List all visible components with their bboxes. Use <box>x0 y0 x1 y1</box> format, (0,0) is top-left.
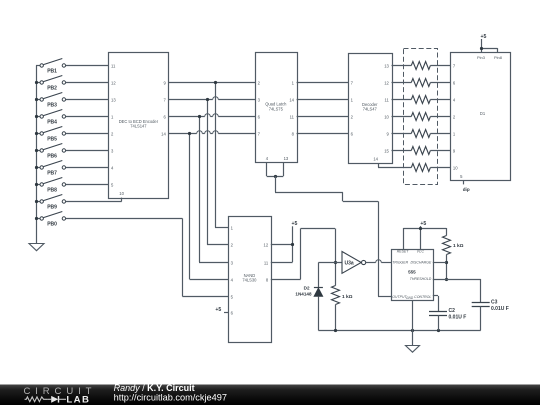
svg-text:74LS47: 74LS47 <box>363 107 378 112</box>
svg-text:14: 14 <box>289 97 294 102</box>
svg-text:+5: +5 <box>420 221 426 227</box>
svg-text:555: 555 <box>408 269 416 274</box>
svg-text:C2: C2 <box>449 308 456 314</box>
svg-text:GND: GND <box>406 296 414 300</box>
svg-text:U3a: U3a <box>345 261 354 267</box>
svg-text:D2: D2 <box>304 286 310 291</box>
svg-text:13: 13 <box>284 156 289 161</box>
svg-text:14: 14 <box>161 131 166 136</box>
svg-text:Pin3: Pin3 <box>477 55 486 60</box>
svg-text:11: 11 <box>290 114 295 119</box>
svg-text:CONTROL: CONTROL <box>414 295 431 299</box>
svg-text:10: 10 <box>384 114 389 119</box>
svg-text:0.01U F: 0.01U F <box>449 315 467 321</box>
svg-text:TRIGGER: TRIGGER <box>392 260 408 264</box>
svg-text:74LS75: 74LS75 <box>269 106 284 111</box>
svg-text:+5: +5 <box>292 221 298 227</box>
svg-text:PB5: PB5 <box>47 136 57 142</box>
svg-text:THRESHOLD: THRESHOLD <box>410 277 432 281</box>
svg-text:PB7: PB7 <box>47 170 57 176</box>
svg-text:1 kΩ: 1 kΩ <box>453 243 464 249</box>
svg-text:74LS30: 74LS30 <box>242 278 257 283</box>
svg-text:12: 12 <box>384 80 389 85</box>
svg-text:12: 12 <box>111 80 116 85</box>
svg-text:http://circuitlab.com/ckje497: http://circuitlab.com/ckje497 <box>114 392 227 402</box>
svg-text:LAB: LAB <box>66 394 90 405</box>
svg-text:DISCHARGE: DISCHARGE <box>410 261 431 265</box>
svg-text:PB2: PB2 <box>47 85 57 91</box>
svg-text:11: 11 <box>111 63 116 68</box>
svg-text:11: 11 <box>385 97 390 102</box>
svg-text:14: 14 <box>373 156 378 161</box>
svg-text:1 kΩ: 1 kΩ <box>342 294 353 300</box>
svg-text:C3: C3 <box>491 300 498 306</box>
svg-text:13: 13 <box>384 63 389 68</box>
svg-text:PB6: PB6 <box>47 153 57 159</box>
svg-text:11: 11 <box>264 260 269 265</box>
svg-text:PB9: PB9 <box>47 204 57 210</box>
svg-text:12: 12 <box>264 242 269 247</box>
svg-text:15: 15 <box>384 148 389 153</box>
svg-text:10: 10 <box>453 165 458 170</box>
svg-text:+5: +5 <box>480 34 486 40</box>
svg-text:VCC: VCC <box>417 249 425 253</box>
svg-text:74LS147: 74LS147 <box>130 123 147 128</box>
svg-text:PB1: PB1 <box>47 68 57 74</box>
svg-text:PB0: PB0 <box>47 221 57 227</box>
svg-text:1N4148: 1N4148 <box>295 291 312 296</box>
svg-text:dip: dip <box>463 187 470 192</box>
svg-text:PB3: PB3 <box>47 102 57 108</box>
svg-text:Pin8: Pin8 <box>494 55 503 60</box>
svg-text:PB8: PB8 <box>47 187 57 193</box>
svg-text:0.01U F: 0.01U F <box>491 306 509 312</box>
svg-text:10: 10 <box>119 191 124 196</box>
svg-text:D1: D1 <box>480 111 486 116</box>
svg-text:13: 13 <box>111 97 116 102</box>
svg-text:PB4: PB4 <box>47 119 57 125</box>
svg-text:RESET: RESET <box>397 249 410 253</box>
svg-text:+5: +5 <box>215 307 221 313</box>
